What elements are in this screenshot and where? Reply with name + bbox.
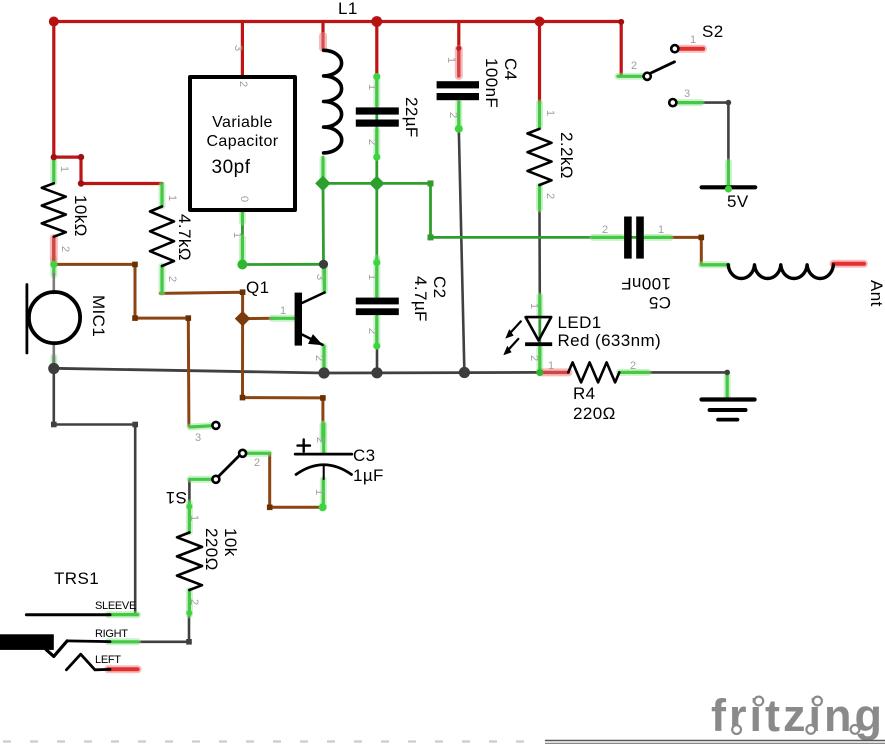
S2 pin3 circle [669, 99, 676, 106]
junction dot red rail at 2.2k [535, 17, 545, 27]
svg-text:3: 3 [232, 45, 244, 51]
svg-text:22µF: 22µF [402, 97, 421, 138]
cap C4 plates [437, 81, 479, 88]
wire red: left drop to resistors [54, 22, 162, 184]
svg-text:1: 1 [445, 57, 457, 63]
MIC1 diaphragm line [25, 285, 28, 354]
svg-text:2.2kΩ: 2.2kΩ [557, 132, 576, 179]
wire green: LED lead through [538, 302, 541, 372]
TRS left line [66, 654, 110, 670]
resistor 10k 220Ohm zigzag [177, 533, 202, 591]
svg-text:LEFT: LEFT [95, 654, 121, 666]
TRS tip notch [46, 641, 67, 657]
red end dot C4 [456, 46, 461, 51]
svg-text:3: 3 [684, 88, 690, 100]
svg-text:2: 2 [366, 139, 378, 145]
svg-text:1: 1 [690, 34, 696, 46]
TRS plug body [0, 634, 54, 650]
wire green: C5 left lead [593, 236, 644, 239]
bend dot red left drop [51, 154, 57, 160]
S1 pin3 circle [212, 422, 219, 429]
junction dot brown: Q1 base node [235, 311, 251, 327]
svg-text:2: 2 [166, 276, 178, 282]
wire gray: R4 pin2 to ground symbol [649, 372, 728, 380]
resistor R4 zigzag [568, 362, 619, 382]
svg-text:2: 2 [447, 112, 459, 118]
svg-text:Capacitor: Capacitor [206, 133, 278, 150]
inductor L1 coil [324, 50, 342, 153]
bend dots gray [51, 422, 57, 428]
wire red: C4 lead [457, 22, 460, 49]
wire red: L1 top lead [321, 22, 324, 49]
svg-text:LED1: LED1 [558, 313, 602, 332]
Q1 body bar [295, 293, 302, 346]
S2 pin1 circle [671, 45, 678, 52]
wire gray: TRS right to resistor pin2 [138, 614, 189, 642]
svg-text:2: 2 [366, 328, 378, 334]
C3 plus plate [295, 453, 352, 456]
wire red: 22uF lead [375, 22, 378, 77]
wire red: variable cap lead [241, 22, 244, 78]
S2 lever [650, 62, 675, 74]
variable capacitor box [190, 77, 295, 210]
wire green: varcap bottom green seg [241, 210, 244, 265]
svg-text:1: 1 [548, 360, 554, 372]
svg-text:3: 3 [314, 274, 326, 280]
svg-text:S2: S2 [702, 22, 724, 41]
svg-text:C3: C3 [353, 446, 376, 465]
wire green: varcap pin 0 lead [241, 210, 244, 265]
svg-text:TRS1: TRS1 [54, 569, 99, 588]
wire green: 22uF branch [375, 77, 378, 298]
svg-text:1: 1 [544, 110, 556, 116]
svg-text:1: 1 [313, 489, 325, 495]
cap 22uF plates [356, 107, 399, 114]
wire gray: ground rail [54, 368, 541, 373]
junction dot gray: collector node [319, 260, 328, 269]
svg-text:Q1: Q1 [246, 278, 269, 297]
junction dot gray: mic/ground [48, 363, 59, 374]
wire gray: S2 pin3 to 5V [702, 103, 729, 162]
resistor 2.2kOhm zigzag [528, 129, 552, 185]
LED1 triangle [526, 317, 552, 340]
S1 pin1 circle [212, 476, 219, 483]
S2 pin2 circle [644, 73, 651, 80]
red stub wires (unconnected ends) [108, 49, 864, 670]
svg-text:SLEEVE: SLEEVE [95, 600, 136, 612]
Q1 emitter arrowhead [308, 334, 323, 345]
wire green: L1 bottom to collector junction [323, 157, 325, 292]
LED1 cathode bar [525, 342, 552, 346]
LED1 arrow lines [509, 321, 520, 334]
svg-text:MIC1: MIC1 [89, 295, 108, 337]
svg-text:2: 2 [630, 360, 636, 372]
C3 curved plate [296, 465, 352, 475]
junction dot gray: Q1 emitter at rail [318, 367, 329, 378]
svg-text:2: 2 [254, 457, 260, 469]
bend dots brown [132, 262, 138, 268]
svg-text:Variable: Variable [212, 114, 273, 131]
wire brown: mic to S1 pin3 [54, 264, 189, 425]
ground symbol bars [702, 397, 755, 401]
LED1 arrowheads [505, 329, 513, 339]
svg-text:1: 1 [166, 195, 178, 201]
svg-text:RIGHT: RIGHT [95, 628, 128, 640]
wire green: C2 pin2 to ground [375, 315, 378, 373]
svg-text:2: 2 [314, 437, 326, 443]
Q1 collector line [302, 293, 325, 304]
svg-text:10kΩ: 10kΩ [71, 195, 90, 237]
svg-text:4.7kΩ: 4.7kΩ [175, 214, 194, 261]
resistor 4.7kOhm zigzag [150, 207, 174, 267]
MIC1 circle [29, 292, 80, 343]
svg-text:1: 1 [658, 224, 664, 236]
green bend dots tank corner [428, 180, 434, 186]
wire red: 2.2k lead [538, 22, 541, 105]
svg-text:2: 2 [237, 81, 249, 87]
svg-text:30pf: 30pf [212, 157, 251, 178]
C3 plus sign [298, 439, 311, 451]
svg-text:2: 2 [59, 246, 71, 252]
wire green: Q1 emitter down [323, 346, 326, 373]
cap C5 plates [624, 217, 632, 259]
green junction diamond 22uF [369, 176, 385, 192]
svg-text:Ant: Ant [867, 280, 885, 307]
svg-text:2: 2 [544, 193, 556, 199]
svg-text:1: 1 [280, 305, 286, 317]
svg-text:1: 1 [231, 232, 243, 238]
S1 lever [218, 456, 238, 476]
wire gray: 2.2k pin2 down to LED [538, 211, 541, 302]
svg-text:1: 1 [366, 274, 378, 280]
C3 lead from curve [323, 465, 325, 479]
svg-text:2: 2 [188, 599, 200, 605]
resistor 10kOhm zigzag [42, 183, 66, 236]
green pin dots [373, 73, 380, 80]
pin bright green cores [54, 76, 729, 642]
svg-text:2: 2 [602, 224, 608, 236]
green junction dot varcap pin1 [237, 260, 247, 270]
wire brown: 4.7k pin2 to Q1 base junction [160, 292, 275, 318]
svg-text:1: 1 [188, 515, 200, 521]
svg-text:S1: S1 [165, 488, 187, 507]
svg-text:1: 1 [366, 84, 378, 90]
bottom dashed marks [3, 740, 540, 742]
5V bar [702, 185, 756, 189]
junction dot red rail left [49, 17, 59, 27]
pin red-highlight segments [54, 36, 569, 372]
svg-text:220Ω: 220Ω [573, 404, 616, 423]
svg-text:2: 2 [313, 355, 325, 361]
bend dot red S2 corner [618, 19, 624, 25]
pin glow green segments (halo layer) [54, 76, 729, 642]
green junction diamond L1 bottom [315, 176, 331, 192]
MIC1 bottom lead [52, 343, 55, 363]
Q1 emitter line [302, 335, 323, 345]
wire gray: C4 pin2 down to ground rail [459, 129, 465, 373]
svg-text:Red (633nm): Red (633nm) [558, 331, 662, 350]
wire gray: S1 pin1 to resistor 10k pin1 [188, 479, 191, 505]
svg-text:1: 1 [528, 303, 540, 309]
svg-text:3: 3 [195, 432, 201, 444]
inductor Ant coil [728, 265, 833, 279]
svg-text:L1: L1 [338, 0, 358, 18]
wire green: tank node horizontal [323, 183, 624, 237]
svg-text:5V: 5V [727, 192, 749, 211]
wire brown: C5 pin1 to Ant [670, 237, 728, 264]
svg-text:2: 2 [528, 355, 540, 361]
svg-text:R4: R4 [573, 384, 596, 403]
S1 pin2 circle [239, 450, 246, 457]
MIC1 top lead [52, 274, 55, 293]
cap C2 plates [356, 298, 399, 305]
junction dot gray: C2 at rail [371, 367, 382, 378]
svg-text:1µF: 1µF [353, 466, 384, 485]
wire gray: mic ground to TRS sleeve [54, 368, 135, 614]
wire brown: junction down to C3 pin2 [243, 319, 323, 427]
svg-text:0: 0 [238, 196, 250, 202]
wire brown: S1 pin2 to C3 pin1 [270, 453, 323, 507]
junction dot red rail at 22uF [371, 16, 382, 27]
TRS sleeve line [26, 613, 110, 616]
svg-text:1: 1 [58, 166, 70, 172]
wire green: varcap pin1 to Q1 collector junction [242, 263, 323, 266]
svg-text:2: 2 [631, 60, 637, 72]
junction dot gray: C4 at rail [459, 367, 470, 378]
TRS right line [67, 640, 110, 643]
bottom gray line [545, 740, 885, 742]
wire red: top power rail [54, 22, 621, 77]
